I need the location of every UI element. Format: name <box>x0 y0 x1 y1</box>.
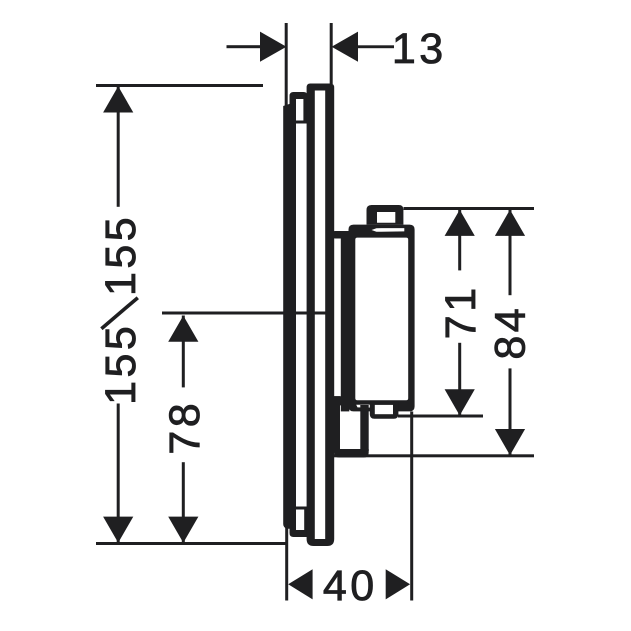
svg-text:13: 13 <box>392 25 447 73</box>
svg-text:78: 78 <box>161 400 209 455</box>
front plate <box>307 84 335 547</box>
dim 40 extension line left <box>285 527 288 601</box>
dim 84 bottom extension line <box>334 454 534 457</box>
dim 155/155 line upper segment <box>117 86 120 207</box>
dim 155/155 slash <box>101 298 137 329</box>
left wall flange bar <box>283 102 296 529</box>
lower housing elbow <box>334 396 345 405</box>
dim 13 extension line right <box>330 23 333 84</box>
dim 71 arrowhead down <box>445 389 475 415</box>
dim 40 arrowhead right <box>386 569 410 599</box>
cartridge sleeve bar <box>341 231 350 411</box>
knob bottom chamfer highlight <box>356 405 373 408</box>
dim 155/155 arrowhead up <box>103 86 133 112</box>
lower housing right wall <box>360 405 368 451</box>
dim 78 arrowhead down <box>168 517 198 543</box>
dim 84 line lower segment <box>509 368 512 454</box>
dim 71 line upper segment <box>458 210 461 271</box>
dim 71/84 top extension line <box>404 207 535 210</box>
knob top chamfer highlight <box>372 228 405 232</box>
knob top button <box>367 205 404 225</box>
dim 40 arrowhead left <box>288 569 312 599</box>
dim 13 arrowhead left <box>260 32 286 62</box>
svg-text:71: 71 <box>437 284 485 339</box>
dim 13 arrow tail right <box>357 45 394 48</box>
lower housing bottom band <box>334 449 369 458</box>
dim 78 line lower segment <box>182 462 185 543</box>
dim 40 extension line right <box>410 412 413 601</box>
escutcheon sleeve top section <box>290 92 308 124</box>
dim 71 bottom extension line <box>398 415 483 418</box>
dim 155/155 bottom extension line <box>96 542 287 545</box>
knob bottom button window <box>375 405 393 414</box>
dim 78 line upper segment <box>182 316 185 388</box>
dim 84 line upper segment <box>509 210 512 295</box>
dim 155/155 arrowhead down <box>103 517 133 543</box>
dim 84 arrowhead down <box>495 429 525 455</box>
dim 84 arrowhead up <box>495 210 525 236</box>
dim 71 line lower segment <box>458 343 461 415</box>
svg-text:155: 155 <box>97 323 145 405</box>
cartridge stub top <box>333 231 349 239</box>
dim 155/155 top extension line <box>96 84 263 87</box>
lower housing left wall <box>334 396 340 451</box>
dim 13 arrow tail left <box>227 45 261 48</box>
svg-text:40: 40 <box>323 562 378 610</box>
dim 78 arrowhead up <box>168 316 198 342</box>
svg-text:84: 84 <box>486 305 534 360</box>
dim 71 arrowhead up <box>445 210 475 236</box>
center extension line <box>162 312 330 315</box>
knob body <box>349 225 415 412</box>
dim 155/155 line lower segment <box>117 404 120 543</box>
dim 13 extension line left <box>285 23 288 106</box>
svg-text:155: 155 <box>97 214 145 296</box>
dim 13 arrowhead right <box>332 32 358 62</box>
knob bottom button <box>370 402 399 419</box>
escutcheon sleeve bottom section <box>290 507 308 538</box>
